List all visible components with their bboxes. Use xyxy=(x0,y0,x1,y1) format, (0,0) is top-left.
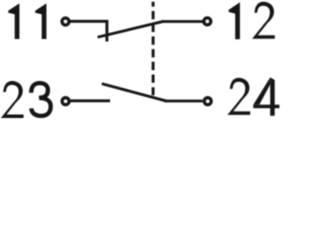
fixed contact stub xyxy=(105,21,108,41)
terminal label 23 xyxy=(1,81,24,118)
terminal label 11 xyxy=(8,3,19,39)
NC contact blade 11-12 xyxy=(98,21,164,37)
terminal 12 xyxy=(204,18,211,25)
wire from terminal 11 xyxy=(70,20,108,23)
NO contact blade 23-24 xyxy=(102,84,167,101)
mechanical link (dashed) xyxy=(152,2,155,96)
terminal 24 xyxy=(204,98,211,105)
wire to terminal 24 xyxy=(165,100,203,103)
terminal 23 xyxy=(62,98,69,105)
terminal label 24 xyxy=(228,78,251,115)
wire to terminal 12 xyxy=(162,20,203,23)
terminal 11 xyxy=(62,18,69,25)
terminal label 12 xyxy=(229,2,240,39)
wire from terminal 23 xyxy=(70,99,110,102)
